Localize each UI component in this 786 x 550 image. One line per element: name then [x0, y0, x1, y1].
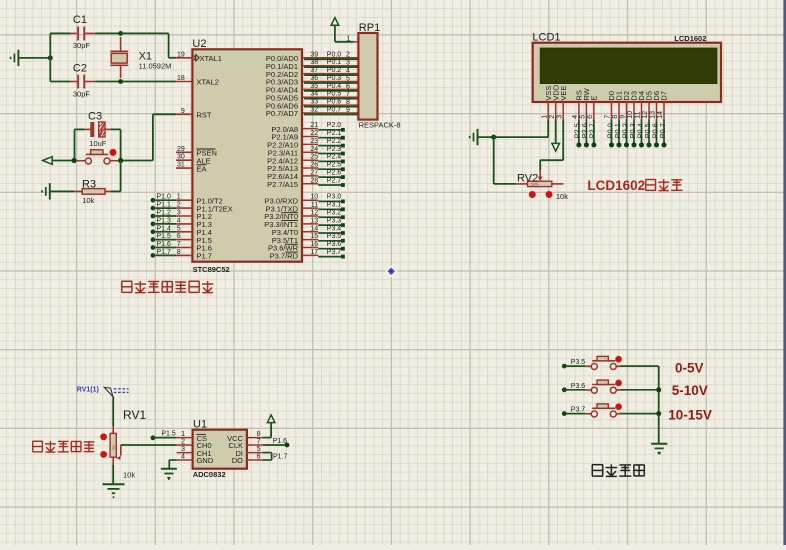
svg-text:P3.5: P3.5 — [327, 233, 342, 240]
svg-text:P0.0: P0.0 — [327, 51, 342, 58]
RV2 adjust buttons — [529, 191, 553, 198]
svg-text:10: 10 — [310, 194, 318, 201]
ground — [651, 444, 667, 455]
pin 12 (LCD D5) — [642, 102, 649, 120]
svg-text:30: 30 — [177, 154, 185, 161]
junction — [118, 31, 123, 36]
wire net P0.4 — [304, 83, 358, 91]
svg-text:16: 16 — [310, 241, 318, 248]
wire — [169, 460, 176, 468]
svg-text:8: 8 — [612, 115, 619, 119]
wire net P0.5 — [304, 91, 358, 99]
svg-text:17: 17 — [310, 249, 318, 256]
pin 32 (P0.7) — [266, 107, 359, 119]
svg-text:LCD1: LCD1 — [532, 32, 560, 44]
svg-text:P3.7: P3.7 — [327, 249, 342, 256]
svg-text:8: 8 — [257, 431, 261, 438]
node P1.7 — [151, 249, 171, 258]
node P3.7 — [318, 249, 345, 259]
svg-text:38: 38 — [310, 59, 318, 66]
svg-text:27: 27 — [310, 169, 318, 176]
node P3.5 — [318, 233, 345, 243]
pin 7 (LCD D0) — [605, 102, 612, 120]
pin 3 (CH1) — [177, 446, 193, 453]
node P0.5 — [643, 120, 652, 148]
label 5-10V — [672, 383, 708, 398]
pin 10 (LCD D3) — [627, 102, 634, 120]
pin 3 (P1.2) — [176, 210, 212, 222]
pin 30 (ALE) — [176, 154, 211, 166]
svg-text:26: 26 — [310, 162, 318, 169]
wire — [49, 33, 51, 81]
svg-text:6: 6 — [587, 115, 594, 119]
svg-text:10: 10 — [627, 111, 634, 119]
node P3.6 — [562, 383, 585, 392]
svg-text:P1.6: P1.6 — [273, 438, 288, 445]
svg-text:4: 4 — [177, 217, 181, 224]
svg-text:35: 35 — [310, 83, 318, 90]
svg-text:P0.7: P0.7 — [658, 123, 667, 138]
node P1.2 — [151, 210, 171, 219]
svg-text:RV1: RV1 — [123, 408, 146, 422]
pin 18 (XTAL2) — [176, 75, 219, 87]
svg-text:ADC0832: ADC0832 — [193, 470, 226, 479]
svg-text:6: 6 — [257, 453, 261, 460]
svg-text:P2.4: P2.4 — [327, 154, 342, 161]
svg-text:P2.7: P2.7 — [327, 177, 342, 184]
wire — [153, 247, 176, 249]
node P1.5 — [151, 233, 171, 242]
junction — [491, 135, 496, 140]
LCD display LCD1 LCD1602 — [532, 32, 721, 102]
svg-text:RP1: RP1 — [359, 22, 380, 34]
svg-text:25: 25 — [310, 154, 318, 161]
node P2.3 — [318, 146, 345, 156]
node P2.6 — [318, 169, 345, 179]
wire — [112, 465, 114, 484]
wire — [153, 215, 176, 217]
node P3.3 — [318, 217, 345, 227]
button red marker — [615, 356, 622, 363]
pin 35 (P0.4) — [266, 83, 359, 95]
pin 23 (P2.2) — [267, 138, 318, 150]
pin 14 (LCD D7) — [657, 102, 664, 120]
pin 22 (P2.1) — [271, 130, 318, 142]
microcontroller U2 STC89C52 — [192, 38, 302, 274]
svg-text:XTAL2: XTAL2 — [197, 78, 219, 87]
svg-text:24: 24 — [310, 146, 318, 153]
svg-text:5: 5 — [346, 75, 350, 82]
node P2.0 — [318, 122, 345, 132]
svg-text:RV1(1): RV1(1) — [77, 386, 99, 393]
pin 34 (P0.5) — [266, 91, 359, 103]
node P3.5 — [562, 359, 585, 368]
wire — [153, 239, 176, 241]
svg-text:2: 2 — [549, 115, 556, 119]
pin 10 (P3.0) — [265, 194, 319, 206]
junction — [118, 79, 123, 84]
node P0.7 — [658, 120, 667, 148]
svg-text:39: 39 — [310, 51, 318, 58]
pin 6 (P1.5) — [176, 233, 212, 245]
svg-text:C1: C1 — [73, 14, 87, 26]
button red marker — [615, 403, 622, 410]
svg-text:0-5V: 0-5V — [675, 361, 704, 376]
svg-text:4: 4 — [572, 115, 579, 119]
wire — [121, 114, 176, 160]
node P1.3 — [151, 217, 171, 226]
svg-text:RST: RST — [197, 111, 212, 120]
node P2.5 — [573, 120, 582, 148]
svg-text:2: 2 — [177, 202, 181, 209]
svg-text:P3.1: P3.1 — [327, 202, 342, 209]
pin 7 (CLK) — [247, 438, 263, 445]
svg-text:3: 3 — [181, 446, 185, 453]
svg-text:C3: C3 — [88, 111, 102, 123]
node P2.6 — [580, 120, 589, 148]
svg-text:34: 34 — [310, 91, 318, 98]
svg-text:50: 50 — [112, 445, 116, 449]
pin 25 (P2.4) — [267, 154, 318, 166]
wire — [111, 161, 121, 192]
svg-text:P0.7: P0.7 — [327, 107, 342, 114]
svg-text:1: 1 — [541, 115, 548, 119]
svg-text:9: 9 — [181, 108, 185, 115]
svg-text:E: E — [590, 96, 599, 101]
junction — [118, 158, 123, 163]
push button (reset) — [77, 150, 121, 164]
svg-text:5: 5 — [580, 115, 587, 119]
svg-text:19: 19 — [177, 51, 185, 58]
wire — [112, 397, 114, 426]
svg-text:23: 23 — [310, 138, 318, 145]
svg-text:P3.5: P3.5 — [571, 359, 586, 366]
svg-text:P0.3: P0.3 — [327, 75, 342, 82]
svg-text:11.0592M: 11.0592M — [139, 61, 172, 70]
label LCD1602显示屏 — [587, 178, 682, 193]
svg-text:9: 9 — [620, 115, 627, 119]
pin 38 (P0.1) — [266, 59, 359, 71]
node P2.7 — [588, 120, 597, 148]
svg-text:D7: D7 — [660, 91, 669, 101]
node P1.6 — [263, 438, 290, 448]
wire net P0.6 — [304, 99, 358, 107]
potentiometer RV1 — [110, 408, 146, 480]
pin 2 (CH0) — [177, 438, 193, 445]
wire — [658, 366, 660, 443]
pin 9 (RST) — [176, 108, 212, 120]
svg-text:6: 6 — [346, 83, 350, 90]
power VDD (down arrow) — [552, 120, 560, 152]
pin 8 (LCD D1) — [612, 102, 619, 120]
svg-text:P2.2: P2.2 — [327, 138, 342, 145]
node P2.7 — [318, 177, 345, 187]
svg-text:36: 36 — [310, 75, 318, 82]
button red marker — [615, 380, 622, 387]
svg-text:RESPACK-8: RESPACK-8 — [359, 121, 401, 130]
pin 27 (P2.6) — [267, 169, 318, 181]
pin 1 (P1.0) — [176, 194, 223, 206]
push button P3.7 — [586, 404, 620, 417]
svg-text:7: 7 — [177, 241, 181, 248]
svg-text:P3.3: P3.3 — [327, 217, 342, 224]
svg-text:11: 11 — [635, 111, 642, 118]
label 电压值调节 — [32, 441, 94, 452]
wire — [50, 81, 176, 83]
node P1.7 — [263, 453, 288, 461]
node P0.1 — [613, 120, 622, 148]
capacitor C2 — [70, 63, 96, 99]
pin 2 (P1.1) — [176, 202, 233, 214]
svg-text:12: 12 — [310, 210, 318, 217]
svg-text:33: 33 — [310, 99, 318, 106]
pin 1 (LCD VSS) — [541, 102, 548, 120]
ground — [161, 469, 177, 480]
svg-text:28: 28 — [310, 177, 318, 184]
node P3.7 — [562, 407, 585, 416]
svg-text:GND: GND — [197, 456, 214, 465]
svg-text:5: 5 — [177, 225, 181, 232]
svg-text:5: 5 — [257, 446, 261, 453]
resistor R3 — [74, 178, 111, 205]
svg-text:11: 11 — [311, 202, 318, 209]
pin 5 (DI) — [247, 446, 263, 453]
wire — [564, 365, 585, 367]
RV1 adjust buttons — [100, 433, 107, 457]
wire — [494, 137, 516, 184]
junction — [656, 387, 661, 416]
svg-text:XTAL1: XTAL1 — [200, 54, 222, 63]
capacitor C3 — [84, 111, 111, 148]
pin 26 (P2.5) — [267, 162, 318, 174]
svg-text:LCD1602: LCD1602 — [587, 178, 645, 193]
svg-text:37: 37 — [310, 67, 318, 74]
svg-text:3: 3 — [556, 115, 563, 119]
node P3.6 — [318, 241, 345, 251]
svg-text:P3.0: P3.0 — [327, 194, 342, 201]
svg-text:1: 1 — [346, 35, 350, 42]
svg-text:29: 29 — [177, 146, 185, 153]
node P2.1 — [318, 130, 345, 140]
pin 4 (LCD RS) — [572, 102, 579, 120]
node P1.0 — [151, 194, 171, 203]
button red marker — [110, 149, 117, 156]
pin 8 (VCC) — [247, 431, 263, 438]
resistor pack RP1 RESPACK-8 — [346, 22, 400, 129]
wire net P0.2 — [304, 67, 358, 75]
svg-text:P3.6: P3.6 — [571, 383, 586, 390]
svg-text:7: 7 — [346, 91, 350, 98]
svg-text:2: 2 — [181, 438, 185, 445]
wire VSS — [494, 120, 549, 138]
node P0.6 — [650, 120, 659, 148]
node P0.0 — [605, 120, 614, 148]
marker (blue diamond) — [386, 266, 396, 276]
svg-text:P0.6: P0.6 — [327, 99, 342, 106]
svg-text:C2: C2 — [73, 63, 87, 75]
pin 37 (P0.2) — [266, 67, 359, 79]
svg-text:1: 1 — [181, 431, 185, 438]
wire — [564, 413, 585, 415]
pin 24 (P2.3) — [268, 146, 319, 158]
ground — [103, 484, 125, 498]
pin 6 (DO) — [247, 453, 263, 460]
svg-text:2: 2 — [346, 52, 350, 59]
wire net P0.1 — [304, 59, 358, 67]
label 0-5V — [675, 361, 704, 376]
wire — [620, 413, 659, 415]
node P1.5 — [151, 431, 176, 441]
pin 2 (LCD VDD) — [549, 102, 556, 120]
pin 5 (LCD RW) — [580, 102, 587, 120]
svg-text:8: 8 — [177, 249, 181, 256]
svg-text:8: 8 — [346, 99, 350, 106]
svg-text:15: 15 — [310, 233, 318, 240]
pin 15 (P3.5) — [272, 233, 319, 245]
pin 13 (P3.3) — [264, 217, 318, 229]
junction — [72, 158, 77, 163]
svg-text:P3.7/RD: P3.7/RD — [270, 252, 299, 261]
pin 12 (P3.2) — [264, 210, 318, 222]
wire — [335, 41, 354, 43]
node P3.1 — [318, 202, 345, 212]
svg-text:P1.7: P1.7 — [197, 252, 212, 261]
svg-text:P0.4: P0.4 — [327, 83, 342, 90]
svg-text:EA: EA — [197, 164, 207, 173]
pin 33 (P0.6) — [266, 99, 359, 111]
potentiometer RV2 — [516, 170, 568, 201]
node P1.6 — [151, 241, 171, 250]
svg-text:7: 7 — [605, 115, 612, 119]
svg-text:7: 7 — [257, 438, 261, 445]
wire — [153, 207, 176, 209]
svg-text:P2.3: P2.3 — [327, 146, 342, 153]
pin 11 (P3.1) — [265, 202, 318, 214]
svg-text:6: 6 — [177, 233, 181, 240]
svg-text:P2.6: P2.6 — [327, 169, 342, 176]
wire — [564, 389, 585, 391]
svg-text:P3.4: P3.4 — [327, 225, 342, 232]
wire — [153, 199, 176, 201]
svg-text:LCD1602: LCD1602 — [674, 34, 706, 43]
ground — [42, 183, 74, 199]
svg-text:P2.5: P2.5 — [327, 162, 342, 169]
node P0.2 — [620, 120, 629, 148]
pin 31 (EA) — [176, 162, 207, 174]
wire — [153, 254, 176, 256]
pin 28 (P2.7) — [267, 177, 318, 189]
pin 17 (P3.7) — [270, 249, 319, 261]
wire — [620, 389, 659, 391]
svg-text:P1.5: P1.5 — [161, 431, 176, 438]
wire net P0.3 — [304, 75, 358, 83]
ground — [11, 50, 51, 66]
svg-text:4: 4 — [181, 453, 185, 460]
svg-text:STC89C52: STC89C52 — [193, 265, 230, 274]
svg-text:P3.7: P3.7 — [571, 407, 586, 414]
pin 9 (LCD D2) — [620, 102, 627, 120]
svg-text:P0.1: P0.1 — [327, 59, 342, 66]
svg-text:P1.7: P1.7 — [273, 454, 288, 461]
label RV1(1) — [77, 386, 129, 396]
pin 4 (GND) — [177, 453, 193, 460]
svg-text:P0.2: P0.2 — [327, 67, 342, 74]
node P2.4 — [318, 154, 345, 164]
pin 19 (XTAL1) — [176, 51, 222, 63]
pin 39 (P0.0) — [266, 51, 359, 63]
svg-text:DO: DO — [232, 456, 243, 465]
wire — [121, 33, 176, 57]
svg-text:10uF: 10uF — [89, 139, 107, 148]
power VCC — [263, 415, 275, 438]
svg-text:9: 9 — [346, 107, 350, 114]
svg-text:5-10V: 5-10V — [672, 383, 708, 398]
wire — [75, 129, 121, 160]
node P2.5 — [318, 162, 345, 172]
pin 21 (P2.0) — [271, 122, 318, 134]
svg-text:3: 3 — [346, 60, 350, 67]
svg-text:22: 22 — [310, 130, 318, 137]
svg-text:P3.6: P3.6 — [327, 241, 342, 248]
svg-text:U1: U1 — [193, 418, 207, 430]
svg-text:4: 4 — [346, 68, 350, 75]
svg-text:P3.2: P3.2 — [327, 210, 342, 217]
power VCC — [331, 18, 339, 42]
wire — [153, 437, 177, 439]
pin 16 (P3.6) — [268, 241, 318, 253]
pin 29 (PSEN) — [176, 146, 217, 158]
wire — [620, 365, 659, 367]
svg-text:32: 32 — [310, 107, 318, 114]
pin 7 (P1.6) — [176, 241, 212, 253]
svg-text:14: 14 — [310, 225, 318, 232]
svg-text:RV2: RV2 — [517, 172, 538, 184]
pin 1 (CS) — [177, 431, 193, 438]
power terminal (left arrow) — [43, 157, 75, 165]
node P1.1 — [151, 202, 171, 211]
svg-text:P0.7/AD7: P0.7/AD7 — [266, 109, 298, 118]
node P3.4 — [318, 225, 345, 235]
svg-text:3: 3 — [177, 210, 181, 217]
wire — [121, 444, 177, 446]
node P3.0 — [318, 194, 345, 204]
crystal X1 — [110, 37, 171, 78]
svg-text:10k: 10k — [123, 471, 135, 480]
svg-text:30pF: 30pF — [73, 41, 91, 50]
node P3.2 — [318, 210, 345, 220]
wire — [153, 231, 176, 233]
pin 14 (P3.4) — [272, 225, 319, 237]
pin 13 (LCD D6) — [650, 102, 657, 120]
node P0.4 — [635, 120, 644, 148]
pin 11 (LCD D4) — [635, 102, 642, 120]
junction — [48, 55, 53, 60]
window edge — [783, 0, 786, 545]
svg-text:21: 21 — [310, 122, 318, 129]
svg-text:U2: U2 — [192, 38, 206, 50]
push button P3.6 — [586, 380, 620, 393]
svg-text:10k: 10k — [556, 192, 568, 201]
label 10-15V — [668, 407, 712, 422]
svg-text:18: 18 — [177, 75, 185, 82]
wire net P0.0 — [304, 51, 358, 59]
label 单片机最小系统 — [122, 281, 214, 293]
svg-text:10-15V: 10-15V — [668, 407, 712, 422]
svg-text:P2.7/A15: P2.7/A15 — [267, 180, 298, 189]
ADC U1 ADC0832 — [193, 418, 247, 479]
ground — [470, 129, 494, 145]
svg-text:P0.5: P0.5 — [327, 91, 342, 98]
